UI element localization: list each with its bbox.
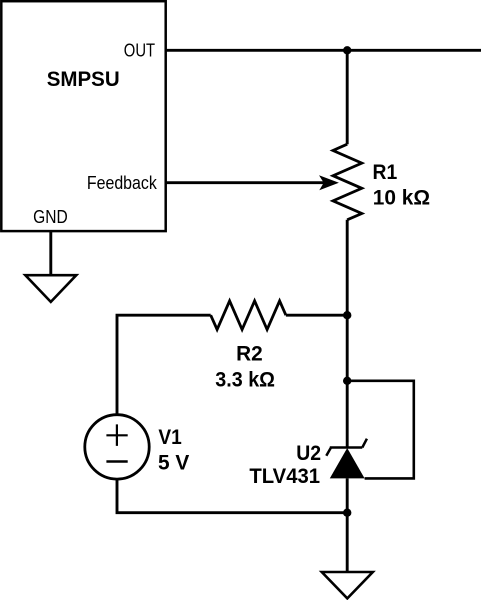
svg-text:R2: R2	[236, 342, 263, 366]
svg-text:GND: GND	[33, 206, 68, 227]
svg-text:3.3 kΩ: 3.3 kΩ	[215, 368, 275, 392]
svg-text:5 V: 5 V	[158, 451, 190, 475]
svg-text:TLV431: TLV431	[249, 464, 320, 488]
svg-text:Feedback: Feedback	[87, 172, 158, 193]
svg-text:SMPSU: SMPSU	[47, 67, 120, 91]
svg-text:10 kΩ: 10 kΩ	[373, 186, 430, 210]
svg-text:OUT: OUT	[124, 40, 155, 61]
svg-text:V1: V1	[158, 425, 181, 449]
svg-text:R1: R1	[373, 160, 398, 184]
svg-text:U2: U2	[296, 441, 321, 465]
